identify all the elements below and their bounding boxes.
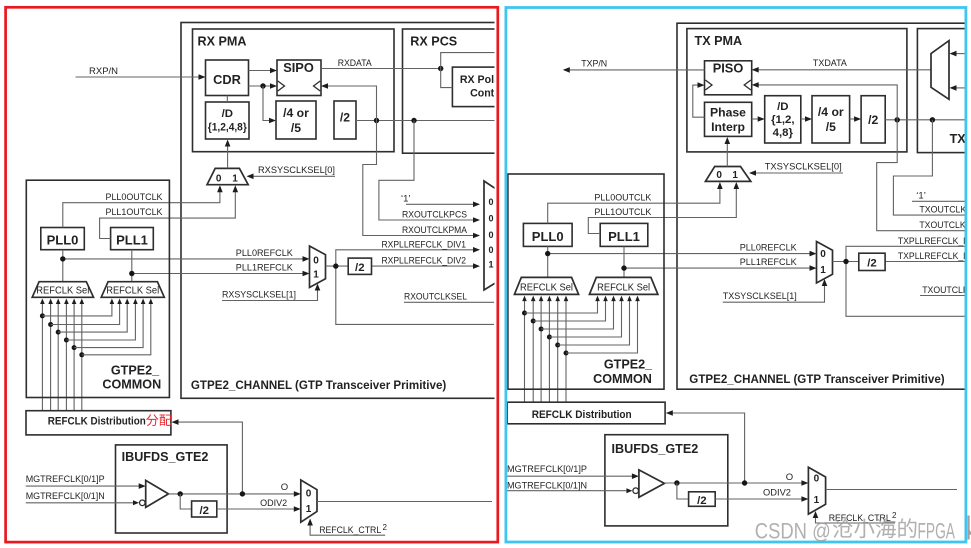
block PLL1 (TX): [600, 223, 648, 246]
svg-text:Interp: Interp: [711, 120, 745, 134]
buffer IBUFDS (TX): [639, 470, 665, 497]
buffer IBUFDS (RX): [146, 480, 169, 507]
junction RXDATA node: [438, 66, 443, 71]
wire refclk TX 2 branch to right REFCLK Sel: [541, 300, 613, 329]
watermark xiao glyph: [854, 519, 874, 538]
svg-text:/2: /2: [697, 495, 707, 507]
wire REFCLK_CTRL select (TX): [816, 517, 896, 524]
block /2 divider (RX channel): [348, 258, 371, 274]
block Phase Interp: [705, 102, 752, 136]
svg-text:{1,2,4,8}: {1,2,4,8}: [208, 122, 248, 134]
junction PCS clock node: [411, 118, 416, 123]
wire RXOUTCLKSEL select: [404, 301, 494, 303]
junction refclk TX 3: [547, 335, 552, 340]
svg-text:/2: /2: [355, 262, 365, 274]
svg-text:PLL1REFCLK: PLL1REFCLK: [740, 257, 798, 268]
wire refclk ctrl mux output: [317, 501, 492, 503]
block /2 (RX PMA): [334, 101, 356, 139]
svg-text:RXSYSCLKSEL[0]: RXSYSCLKSEL[0]: [258, 165, 335, 176]
wire refclk 2 branch to right REFCLK Sel: [58, 303, 127, 332]
watermark cang glyph: [833, 518, 853, 538]
junction refclk TX 5: [564, 351, 569, 356]
svg-text:TXP/N: TXP/N: [581, 58, 607, 69]
wire refclk TX 5 to left REFCLK Sel: [565, 300, 567, 402]
svg-text:0: 0: [489, 214, 494, 224]
wire PLL1 to REFCLK Sel (TX): [623, 246, 625, 277]
box GTPE2_COMMON (TX): [508, 174, 664, 389]
box REFCLK Distribution (RX): [26, 411, 171, 435]
wire PLL0REFCLK (TX): [548, 253, 811, 255]
svg-text:MGTREFCLK[0/1]N: MGTREFCLK[0/1]N: [507, 481, 587, 492]
block PLL0 (TX): [523, 223, 572, 246]
wire refclk 5 to left REFCLK Sel: [81, 303, 83, 411]
mux REFCLK Sel (left): [32, 282, 93, 298]
box GTPE2_CHANNEL (RX): [181, 23, 511, 399]
wire buffer output O: [169, 493, 295, 495]
mux TXSYSCLKSEL[0]: [705, 167, 750, 182]
wire refclk 1 branch to right REFCLK Sel: [51, 303, 120, 325]
svg-text:0: 0: [313, 256, 319, 267]
svg-text:0: 0: [216, 173, 222, 184]
wire Phase Interp to /D: [752, 118, 759, 120]
wire REFCLK_CTRL select: [310, 524, 385, 535]
junction PLL1 refclk (TX): [621, 265, 626, 270]
svg-text:PLL0OUTCLK: PLL0OUTCLK: [594, 193, 652, 204]
svg-text:TXPLLREFCLK_DIV2: TXPLLREFCLK_DIV2: [898, 251, 971, 262]
wire refclk TX 4 to left REFCLK Sel: [557, 300, 559, 402]
svg-text:RXOUTCLKSEL: RXOUTCLKSEL: [404, 292, 467, 303]
wire refclk 1 to left REFCLK Sel: [50, 303, 52, 411]
wire PLL1OUTCLK: [100, 190, 236, 239]
mux RXOUTCLKSEL (clipped): [484, 181, 497, 290]
mux TXSYSCLKSEL[1]: [817, 242, 833, 284]
mux RXSYSCLKSEL[0]: [207, 168, 248, 184]
wire TXDATA mux input lower: [955, 87, 965, 89]
clock input right of SIPO: [314, 81, 321, 91]
watermark hai glyph: [876, 518, 896, 538]
svg-text:PISO: PISO: [713, 60, 744, 75]
junction RXPLLREFCLK node: [333, 263, 338, 268]
svg-text:PLL1: PLL1: [116, 233, 148, 248]
wire TXSYSCLKSEL[0] select: [755, 172, 844, 174]
svg-text:TXDATA: TXDATA: [813, 58, 848, 69]
wire refclk 5 branch to right REFCLK Sel: [82, 303, 151, 355]
svg-text:0: 0: [814, 473, 820, 484]
wire RXDATA up and right to fabric: [441, 53, 496, 69]
wire refclk TX 1 branch to right REFCLK Sel: [533, 300, 605, 321]
wire PMA clock up to SIPO right clock: [327, 86, 377, 121]
wire refclk 2 to left REFCLK Sel: [57, 303, 59, 411]
junction refclk 3: [64, 338, 69, 343]
block /2 (TX PMA): [861, 96, 885, 143]
svg-text:/2: /2: [868, 113, 878, 127]
wire PCS clock down to RXOUTCLKPCS: [379, 121, 474, 221]
svg-text:‘1’: ‘1’: [916, 191, 926, 202]
svg-text:PLL0REFCLK: PLL0REFCLK: [740, 243, 798, 254]
svg-text:TXOUTCLKPMA: TXOUTCLKPMA: [919, 220, 971, 231]
svg-text:IBUFDS_GTE2: IBUFDS_GTE2: [612, 442, 699, 456]
wire PLL0OUTCLK (TX): [548, 187, 720, 223]
wire mux out to /2 divider: [326, 265, 349, 267]
box GTPE2_CHANNEL (TX): [677, 23, 971, 389]
junction refclk TX 0: [522, 311, 527, 316]
wire TX mux out to /2 divider: [833, 261, 859, 263]
junction refclk 4: [72, 345, 77, 350]
svg-text:PLL0: PLL0: [532, 229, 564, 244]
mux RXSYSCLKSEL[1]: [310, 246, 326, 288]
svg-text:/D: /D: [777, 101, 788, 113]
box TX PCS: [917, 29, 971, 153]
svg-text:SIPO: SIPO: [283, 60, 314, 75]
wire PLL1OUTCLK (TX): [588, 187, 736, 234]
wire CDR clock out to SIPO clock: [249, 85, 272, 87]
svg-text:RX PCS: RX PCS: [410, 34, 457, 48]
svg-text:TXOUTCLKSEL: TXOUTCLKSEL: [922, 285, 971, 296]
wire constant 1 into RXOUTCLK mux: [406, 203, 474, 205]
block /2 divider (TX channel): [859, 253, 885, 270]
wire /4 or /5 to /2: [850, 118, 856, 120]
svg-text:PLL0REFCLK: PLL0REFCLK: [236, 248, 294, 259]
svg-text:MGTREFCLK[0/1]P: MGTREFCLK[0/1]P: [26, 474, 105, 485]
wire TX PMA clock down to TXOUTCLKPMA: [877, 120, 965, 231]
wire /D to /4 or /5: [801, 118, 806, 120]
junction refclk TX 4: [555, 343, 560, 348]
wire RXSYSCLKSEL[0] select: [252, 175, 335, 177]
svg-text:GTPE2_CHANNEL (GTP Transceiver: GTPE2_CHANNEL (GTP Transceiver Primitive…: [689, 373, 945, 386]
svg-text:/4 or: /4 or: [818, 105, 844, 119]
block /D {1,2,4,8} (RX): [206, 102, 250, 139]
wire refclk TX 3 branch to right REFCLK Sel: [549, 300, 621, 337]
wire PMA clock down to RXOUTCLKPMA: [363, 121, 474, 236]
svg-text:REFCLK Sel: REFCLK Sel: [106, 286, 159, 297]
svg-text:REFCLK Distribution: REFCLK Distribution: [48, 416, 146, 428]
block PLL0: [41, 228, 85, 250]
wire PLL0OUTCLK: [63, 190, 220, 228]
svg-text:MGTREFCLK[0/1]P: MGTREFCLK[0/1]P: [507, 464, 587, 475]
svg-text:RX PMA: RX PMA: [198, 34, 247, 48]
mux TXDATA select (TX PCS): [931, 41, 949, 100]
svg-text:0: 0: [716, 170, 722, 181]
wire TXSYSCLKSEL[1] select: [723, 285, 825, 303]
wire RXDATA from SIPO: [321, 68, 441, 70]
svg-text:1: 1: [814, 495, 820, 506]
block /2 (IBUFDS TX): [689, 492, 716, 507]
svg-text:GTPE2_: GTPE2_: [111, 364, 160, 378]
svg-text:Phase: Phase: [710, 106, 746, 120]
wire CDR to /D divider: [226, 96, 228, 103]
junction PLL0 refclk: [60, 256, 65, 261]
svg-text:0: 0: [820, 249, 826, 260]
svg-text:GTPE2_: GTPE2_: [604, 358, 653, 372]
svg-text:0: 0: [306, 488, 312, 499]
svg-text:ODIV2: ODIV2: [763, 488, 791, 499]
watermark clipped glyph at edge: [969, 516, 971, 540]
wire PLL0 to REFCLK Sel: [62, 250, 64, 282]
wire refclk 0 branch to right REFCLK Sel: [42, 303, 112, 316]
svg-text:RXDATA: RXDATA: [338, 58, 373, 69]
wire RXPLLREFCLK_DIV1: [336, 250, 474, 266]
svg-text:RXOUTCLKPCS: RXOUTCLKPCS: [402, 210, 467, 221]
wire CDR to SIPO data: [249, 70, 272, 72]
junction buffer output: [178, 491, 183, 496]
svg-text:FPGA: FPGA: [918, 518, 956, 543]
mux REFCLK_CTRL (TX): [808, 467, 825, 514]
bubble on N input (TX): [633, 488, 639, 494]
svg-text:MGTREFCLK[0/1]N: MGTREFCLK[0/1]N: [26, 491, 105, 502]
svg-text:1: 1: [313, 270, 319, 281]
svg-text:TXSYSCLKSEL[1]: TXSYSCLKSEL[1]: [723, 291, 797, 302]
label fenpei (red): [146, 414, 158, 426]
junction TXPLLREFCLK node: [843, 259, 848, 264]
wire TXPLLREFCLK_DIV1: [846, 246, 965, 261]
svg-text:0: 0: [489, 230, 494, 240]
svg-text:PLL1OUTCLK: PLL1OUTCLK: [594, 207, 652, 218]
mux REFCLK Sel (TX left): [514, 277, 578, 294]
wire TXPLLREFCLK_DIV2: [885, 261, 965, 263]
junction refclk 2: [56, 330, 61, 335]
junction refclk 0: [40, 313, 45, 318]
mux REFCLK_CTRL (RX): [301, 480, 317, 522]
svg-text:TXOUTCLKPCS: TXOUTCLKPCS: [919, 205, 971, 216]
clock input left of PISO: [705, 80, 712, 90]
svg-text:‘1’: ‘1’: [401, 194, 411, 205]
wire refclk 3 to left REFCLK Sel: [65, 303, 67, 411]
svg-text:2: 2: [383, 523, 388, 532]
wire ODIV2: [217, 508, 295, 510]
svg-text:O: O: [281, 482, 288, 493]
wire junction down to /4 or /5: [263, 86, 270, 121]
block RX Polarity Control: [452, 67, 514, 107]
svg-text:REFCLK Sel: REFCLK Sel: [36, 286, 89, 297]
svg-text:4,8}: 4,8}: [773, 127, 794, 139]
block /4 or /5 (TX): [812, 96, 850, 143]
wire refclk TX 1 to left REFCLK Sel: [532, 300, 534, 402]
svg-text:PLL1REFCLK: PLL1REFCLK: [236, 263, 294, 274]
wire buffer output O (TX): [664, 482, 802, 484]
wire MGTREFCLK P (TX): [507, 475, 633, 477]
svg-text:PLL0: PLL0: [47, 233, 79, 248]
wire refclk TX 4 branch to right REFCLK Sel: [558, 300, 630, 345]
block PLL1: [111, 228, 154, 250]
svg-text:REFCLK Sel: REFCLK Sel: [597, 283, 650, 294]
wire Phase Interp to PISO clock: [693, 85, 705, 117]
wire TXOUTCLKSEL select: [920, 295, 965, 297]
svg-text:{1,2,: {1,2,: [771, 114, 794, 126]
block /D {1,2,4,8} (TX): [765, 96, 801, 143]
wire refclk TX 5 branch to right REFCLK Sel: [566, 300, 638, 353]
wire TXDATA mux input upper: [955, 53, 965, 55]
junction PMA clock node: [374, 118, 379, 123]
svg-text:2: 2: [892, 511, 897, 520]
wire refclk ctrl mux output (TX): [826, 489, 957, 491]
box IBUFDS_GTE2 (TX): [605, 435, 728, 526]
box TX PMA: [687, 29, 907, 152]
wire constant 1 into TXOUTCLK mux: [912, 200, 965, 202]
wire ODIV2 (TX): [715, 498, 802, 500]
wire refclk 0 to left REFCLK Sel: [41, 303, 43, 411]
wire refclk TX 0 branch to right REFCLK Sel: [525, 300, 598, 313]
svg-text:REFCLK Distribution: REFCLK Distribution: [532, 409, 632, 421]
block /2 (IBUFDS RX): [192, 501, 217, 517]
svg-text:/5: /5: [291, 121, 301, 135]
wire MGTREFCLK N: [26, 502, 133, 504]
svg-text:/4 or: /4 or: [283, 106, 309, 120]
wire mux output to Phase Interp: [726, 143, 728, 167]
cyan panel border: [506, 8, 966, 543]
svg-text:GTPE2_CHANNEL (GTP Transceiver: GTPE2_CHANNEL (GTP Transceiver Primitive…: [191, 379, 447, 392]
box RX PCS: [403, 29, 507, 153]
svg-text:RXSYSCLKSEL[1]: RXSYSCLKSEL[1]: [222, 289, 296, 300]
junction refclk TX 1: [531, 319, 536, 324]
wire RXP/N into CDR: [76, 76, 200, 78]
junction to distribution: [240, 491, 245, 496]
svg-text:/5: /5: [826, 120, 836, 134]
wire refclk 4 branch to right REFCLK Sel: [74, 303, 143, 348]
wire TXP/N out of PISO: [569, 69, 705, 71]
svg-text:TXPLLREFCLK_DIV1: TXPLLREFCLK_DIV1: [898, 236, 971, 247]
mux REFCLK Sel (right): [101, 282, 164, 298]
wire PLL1REFCLK (TX): [624, 267, 811, 269]
box RX PMA: [193, 29, 395, 152]
junction on CDR clock wire: [260, 83, 265, 88]
wire /2 output TX clock trunk: [885, 119, 965, 121]
wire PLL0 to REFCLK Sel (TX): [547, 246, 549, 277]
junction PLL1 refclk: [129, 271, 134, 276]
wire RXPLLREFCLK to fabric: [336, 266, 494, 324]
svg-text:PLL0OUTCLK: PLL0OUTCLK: [106, 192, 164, 203]
wire to /2 divider (IBUFDS): [180, 494, 191, 509]
wire refclk 3 branch to right REFCLK Sel: [66, 303, 135, 340]
svg-text:CSDN @: CSDN @: [755, 518, 831, 543]
wire refclk feed into Distribution (TX): [672, 413, 745, 483]
junction buffer output (TX): [674, 480, 679, 485]
junction refclk 5: [79, 352, 84, 357]
svg-text:0: 0: [489, 197, 494, 207]
box REFCLK Distribution (TX): [507, 402, 665, 424]
wire refclk TX 0 to left REFCLK Sel: [524, 300, 526, 402]
wire MGTREFCLK P: [26, 485, 140, 487]
bubble on N input: [140, 500, 146, 506]
svg-text:ODIV2: ODIV2: [260, 498, 287, 509]
junction PLL0 refclk (TX): [545, 251, 550, 256]
wire refclk TX 2 to left REFCLK Sel: [540, 300, 542, 402]
wire TX PCS clock down to TXOUTCLKPCS: [893, 120, 965, 215]
svg-text:COMMON: COMMON: [102, 378, 161, 392]
wire MGTREFCLK N (TX): [507, 490, 626, 492]
junction refclk TX 2: [539, 327, 544, 332]
svg-text:0: 0: [489, 245, 494, 255]
wire TXDATA into PISO: [758, 69, 931, 71]
junction TX PCS clock node: [930, 117, 935, 122]
wire PLL0REFCLK: [63, 258, 304, 260]
watermark de glyph: [898, 518, 916, 537]
svg-text:IBUFDS_GTE2: IBUFDS_GTE2: [122, 450, 209, 464]
block /4 or /5 (RX): [276, 101, 316, 139]
svg-text:/2: /2: [199, 505, 209, 517]
svg-text:1: 1: [732, 170, 738, 181]
svg-text:REFCLK_CTRL: REFCLK_CTRL: [319, 525, 381, 536]
svg-text:1: 1: [820, 265, 826, 276]
box IBUFDS_GTE2 (RX): [116, 445, 228, 533]
svg-text:COMMON: COMMON: [593, 372, 652, 386]
svg-text:PLL1: PLL1: [608, 229, 640, 244]
svg-text:/D: /D: [222, 108, 233, 120]
clock input right of PISO: [744, 80, 751, 90]
wire PLL1 to REFCLK Sel: [131, 250, 133, 282]
svg-text:TXSYSCLKSEL[0]: TXSYSCLKSEL[0]: [765, 162, 842, 173]
block SIPO: [277, 60, 321, 96]
junction TX PMA clock node: [895, 117, 900, 122]
svg-text:PLL1OUTCLK: PLL1OUTCLK: [106, 207, 164, 218]
svg-text:/2: /2: [867, 258, 877, 270]
wire RXDATA down into RX Polarity Control: [441, 69, 453, 88]
wire PMA clock up to PISO right clock: [758, 85, 898, 120]
svg-text:TX PMA: TX PMA: [695, 34, 743, 48]
mux REFCLK Sel (TX right): [589, 277, 658, 294]
box GTPE2_COMMON (RX): [26, 180, 169, 397]
svg-text:RXPLLREFCLK_DIV1: RXPLLREFCLK_DIV1: [382, 239, 467, 250]
svg-text:1: 1: [306, 504, 312, 515]
clock input left of SIPO: [278, 81, 285, 91]
svg-text:/2: /2: [340, 110, 350, 124]
svg-text:RXPLLREFCLK_DIV2: RXPLLREFCLK_DIV2: [382, 256, 467, 267]
svg-text:1: 1: [232, 173, 238, 184]
svg-text:CDR: CDR: [213, 72, 241, 87]
block PISO: [705, 61, 752, 95]
svg-text:RXOUTCLKPMA: RXOUTCLKPMA: [402, 225, 468, 236]
red panel border: [6, 7, 498, 542]
wire /2 output RXOUTCLKPMA trunk: [356, 120, 496, 122]
wire RXSYSCLKSEL[1] select: [222, 289, 318, 301]
junction to distribution (TX): [742, 480, 747, 485]
wire refclk 4 to left REFCLK Sel: [73, 303, 75, 411]
wire TXPLLREFCLK to fabric: [846, 262, 965, 317]
svg-text:1: 1: [489, 260, 494, 270]
wire RXPLLREFCLK_DIV2: [372, 265, 475, 267]
wire PLL1REFCLK: [132, 273, 304, 275]
wire refclk feed into Distribution: [178, 422, 243, 494]
svg-text:RXP/N: RXP/N: [89, 66, 118, 77]
wire refclk TX 3 to left REFCLK Sel: [548, 300, 550, 402]
wire to /2 divider (IBUFDS TX): [677, 483, 689, 499]
svg-text:REFCLK Sel: REFCLK Sel: [520, 283, 573, 294]
wire mux output to /D: [227, 145, 229, 168]
block CDR: [206, 60, 249, 96]
svg-text:O: O: [786, 472, 793, 483]
junction refclk 1: [48, 322, 53, 327]
